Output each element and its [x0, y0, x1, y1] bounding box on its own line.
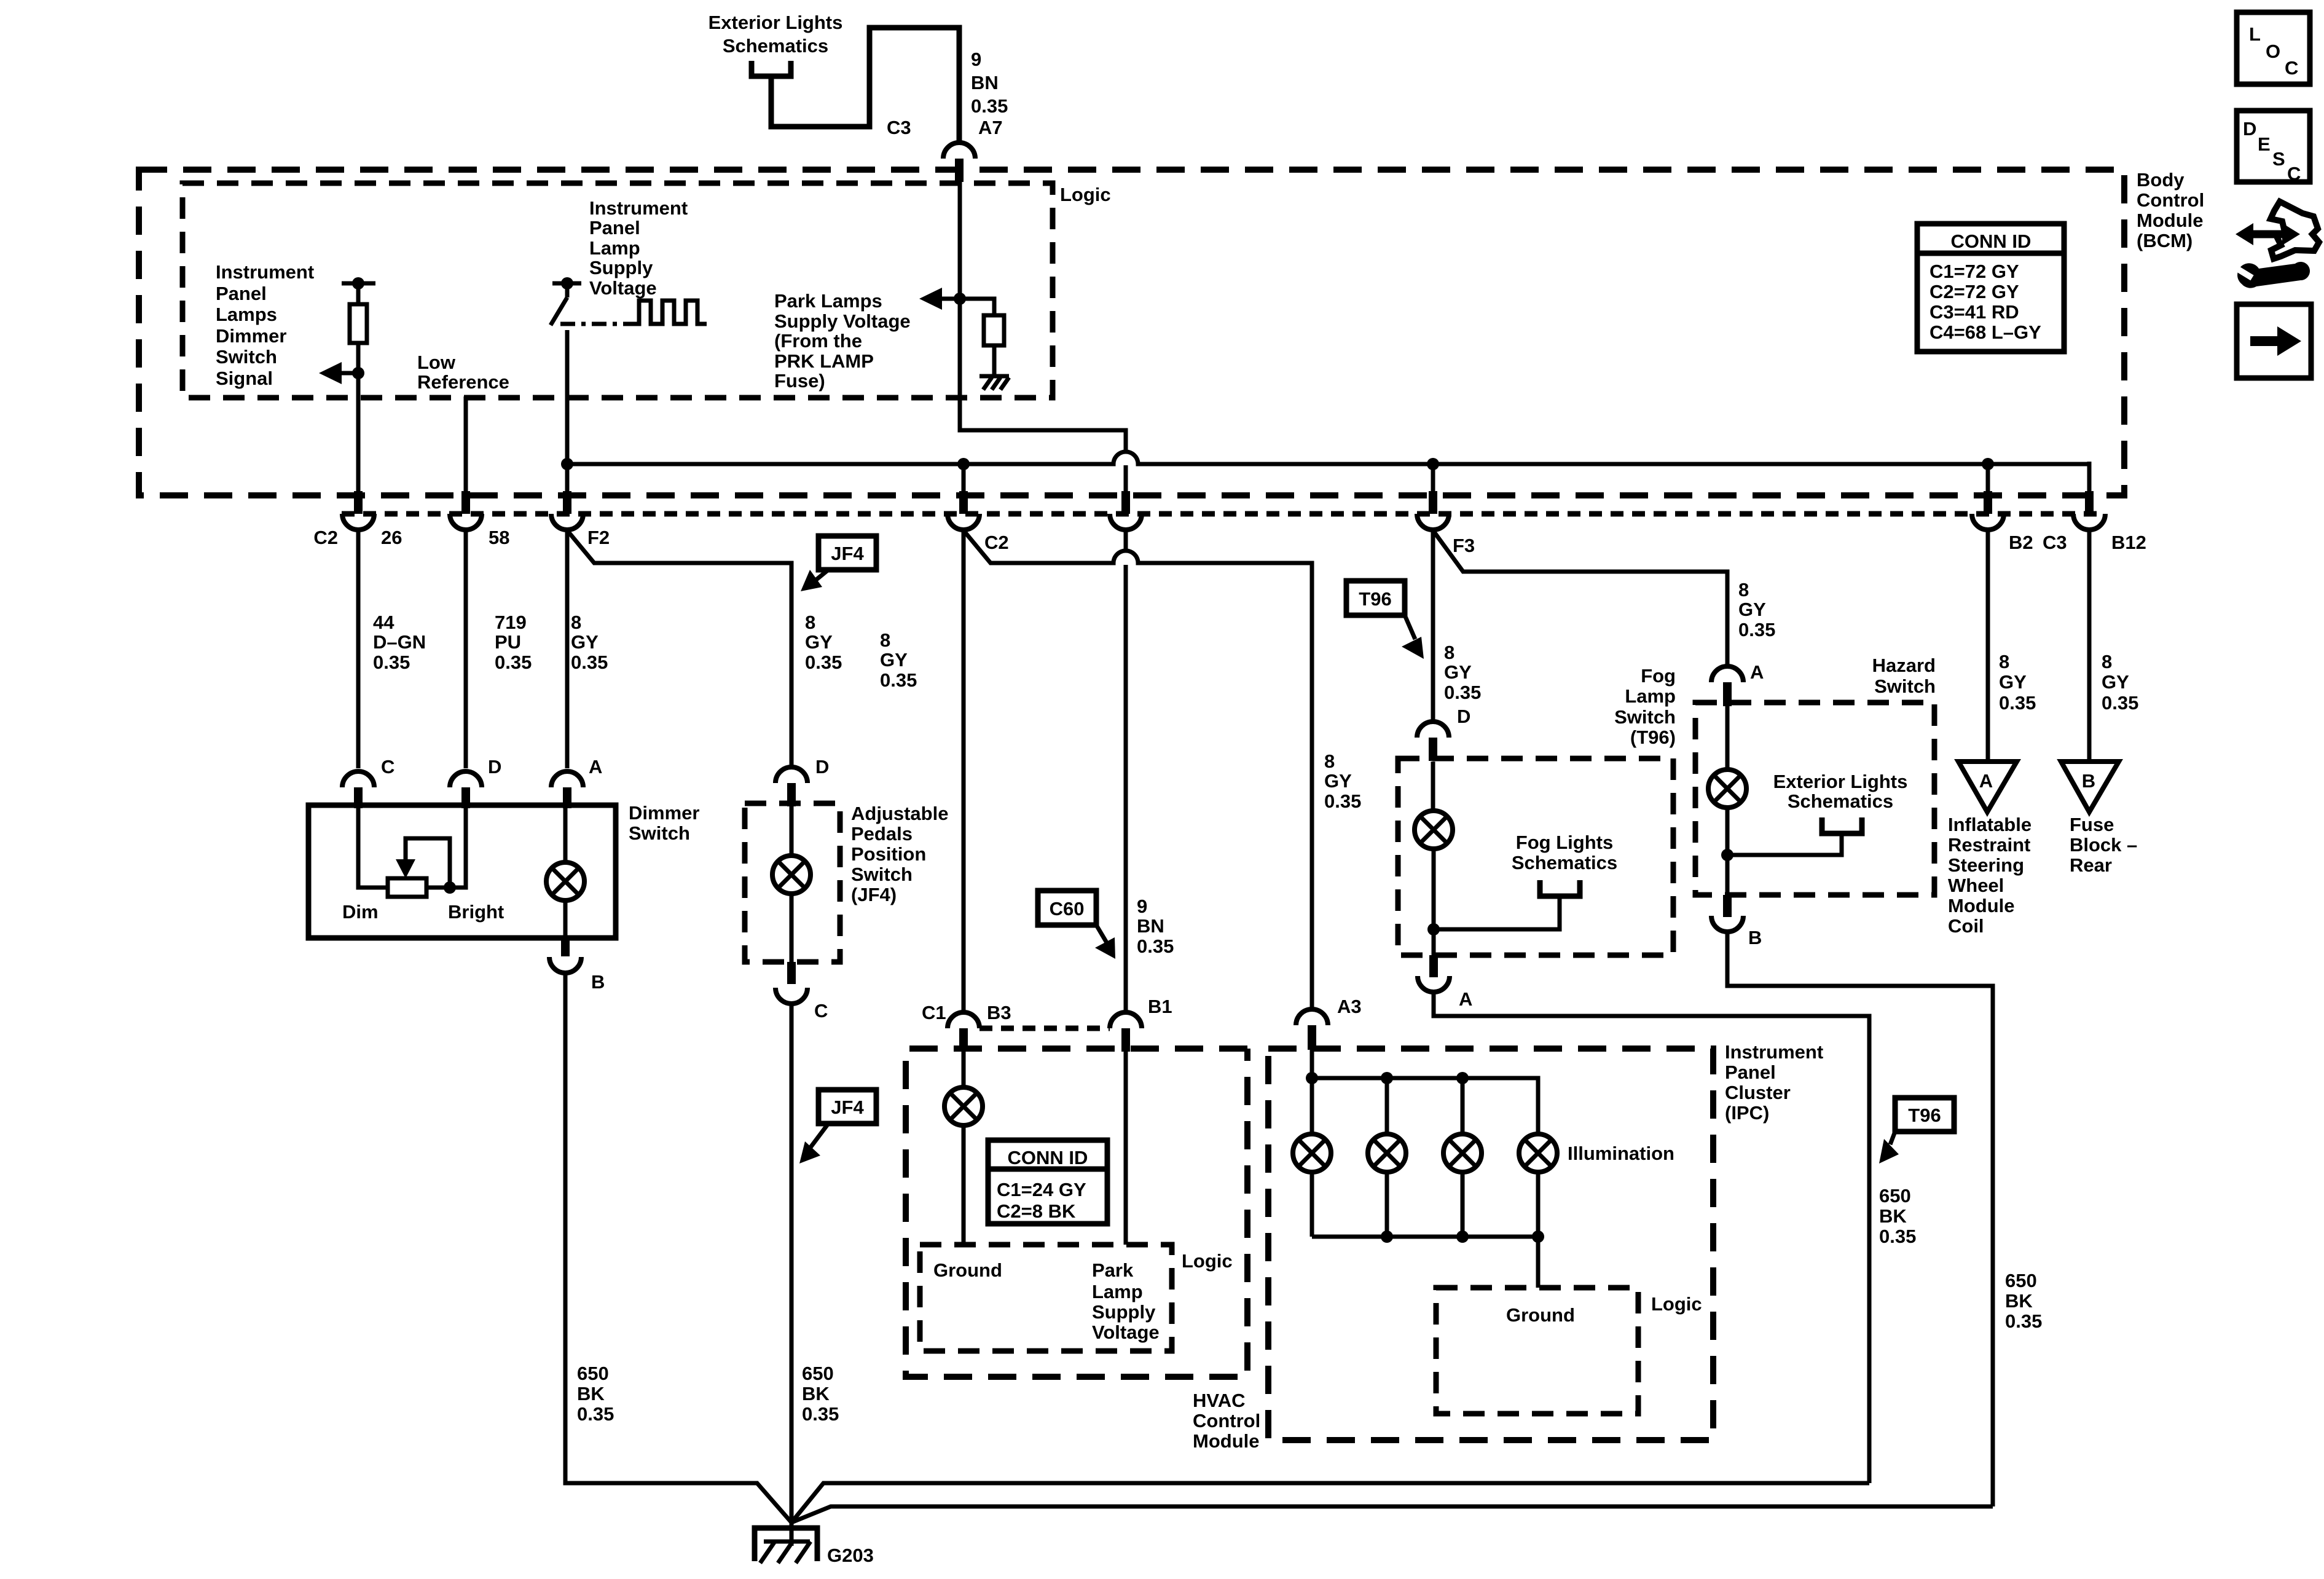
node IPC bottom bus junctions	[1381, 1231, 1544, 1243]
wire F2 drop to dimmer A	[565, 530, 570, 768]
svg-text:650: 650	[1879, 1185, 1911, 1207]
node bus-C2	[957, 458, 970, 470]
wire label 8 GY 0.35 (hazard A)	[1738, 579, 1775, 640]
svg-text:Schematics: Schematics	[1788, 790, 1893, 812]
component box Dimmer Switch	[308, 805, 616, 938]
wire label 8 GY 0.35 (A3 drop)	[1324, 750, 1361, 812]
label Dimmer Switch	[629, 802, 699, 844]
wire label 8 GY 0.35 (B2)	[1999, 651, 2036, 714]
pin C2 (center)	[948, 491, 979, 530]
svg-text:Module: Module	[2137, 210, 2204, 231]
wire pedals C to ground	[790, 1004, 794, 1522]
lamp (HVAC illumination)	[944, 1052, 983, 1245]
offpage triangle A (inflatable restraint)	[1958, 762, 2017, 812]
svg-text:T96: T96	[1908, 1105, 1941, 1126]
svg-text:C60: C60	[1050, 898, 1085, 919]
svg-text:0.35: 0.35	[373, 652, 410, 673]
component box Hazard Switch (dashed)	[1695, 703, 1934, 895]
wire B1 into HVAC logic	[1124, 1052, 1128, 1245]
wire label 650 BK 0.35 (fog)	[1879, 1185, 1916, 1247]
svg-text:T96: T96	[1359, 588, 1391, 610]
icon vehicle outline with arrow and wrench	[2236, 202, 2319, 288]
svg-text:Pedals: Pedals	[851, 823, 913, 845]
connector B (dimmer switch bottom)	[549, 935, 605, 993]
svg-text:Dimmer: Dimmer	[629, 802, 699, 824]
svg-text:BK: BK	[577, 1383, 605, 1404]
wire F2 branch diagonal to JF4	[567, 530, 791, 767]
svg-text:B3: B3	[987, 1002, 1011, 1023]
svg-text:719: 719	[495, 612, 527, 633]
svg-text:S: S	[2272, 148, 2285, 170]
wire F3 drop to fog lamp switch D	[1431, 530, 1435, 722]
svg-text:CONN ID: CONN ID	[1951, 230, 2032, 252]
svg-text:A3: A3	[1337, 996, 1362, 1017]
svg-text:Restraint: Restraint	[1948, 834, 2030, 856]
svg-text:Lamp: Lamp	[589, 237, 640, 259]
connector D (dimmer switch)	[450, 756, 501, 808]
connector bracket Fog Lights Schematics	[1434, 832, 1617, 929]
svg-text:Adjustable: Adjustable	[851, 803, 948, 824]
wire hazard B to right drop	[1727, 932, 1993, 1506]
svg-text:8: 8	[1738, 579, 1749, 600]
label Instrument Panel Lamps Dimmer Switch Signal	[216, 261, 314, 389]
wire A7 into logic box down to junction	[958, 182, 962, 299]
svg-text:26: 26	[381, 527, 402, 548]
svg-text:Lamp: Lamp	[1092, 1281, 1143, 1302]
svg-text:PRK LAMP: PRK LAMP	[774, 350, 874, 372]
svg-text:B: B	[591, 971, 605, 993]
connector A (fog lamp switch bottom)	[1418, 955, 1472, 1010]
pin F2	[551, 491, 583, 530]
connector D (adjustable pedals)	[775, 756, 829, 806]
lamp (adjustable pedals illumination)	[772, 806, 811, 962]
lamp (hazard switch)	[1708, 706, 1746, 895]
svg-text:Supply: Supply	[1092, 1301, 1156, 1323]
svg-text:GY: GY	[571, 631, 599, 653]
wire C2 branch vertical to HVAC C1	[962, 530, 966, 1012]
svg-text:Fog: Fog	[1641, 665, 1676, 687]
svg-text:Steering: Steering	[1948, 854, 2024, 876]
wire hazard drop bottom run to ground	[791, 1506, 1993, 1522]
wire F3 pin drop from bus	[1431, 464, 1435, 495]
svg-text:JF4: JF4	[831, 543, 864, 564]
svg-text:Ground: Ground	[933, 1259, 1002, 1281]
lamp IPC illumination 2	[1368, 1078, 1406, 1237]
wire IPC bottom bus	[1312, 1237, 1538, 1288]
icon box DESC	[2237, 111, 2310, 184]
svg-text:Block –: Block –	[2070, 834, 2137, 856]
svg-text:C: C	[2287, 163, 2301, 184]
pin 58	[450, 491, 482, 530]
wire label 8 GY 0.35 (JF4 branch)	[805, 612, 842, 673]
svg-text:C1: C1	[922, 1002, 946, 1023]
component box Fog Lamp Switch (dashed)	[1398, 758, 1673, 955]
wire label 650 BK 0.35 (pedals C)	[802, 1363, 839, 1425]
svg-text:C2: C2	[984, 532, 1009, 553]
svg-text:D: D	[1457, 706, 1470, 727]
table CONN ID (BCM)	[1917, 224, 2064, 352]
pin C2-26	[342, 491, 374, 530]
wire bus corner down to B12	[2087, 462, 2092, 495]
resistor (park lamp pull-down)	[960, 299, 1004, 376]
svg-text:B2: B2	[2009, 532, 2033, 553]
wire label 8 GY 0.35 (B12)	[2102, 651, 2138, 714]
svg-text:Reference: Reference	[417, 371, 509, 393]
node bus-B2	[1982, 458, 1994, 470]
svg-text:8: 8	[2102, 651, 2112, 672]
label Instrument Panel Cluster (IPC)	[1725, 1041, 1823, 1124]
svg-text:Exterior Lights: Exterior Lights	[1773, 771, 1908, 792]
wire fog A to right drop	[1434, 992, 1869, 1483]
wire label 9 BN 0.35 (top)	[971, 49, 1008, 117]
svg-text:A7: A7	[978, 117, 1003, 138]
control line dash-dot	[560, 322, 632, 326]
svg-text:Module: Module	[1948, 895, 2015, 916]
svg-text:C2: C2	[313, 527, 338, 548]
callout C60	[1038, 891, 1115, 959]
svg-text:A: A	[589, 756, 602, 778]
svg-text:0.35: 0.35	[1738, 619, 1775, 640]
offpage triangle B (fuse block rear)	[2061, 762, 2119, 812]
svg-text:Wheel: Wheel	[1948, 875, 2004, 896]
svg-text:BK: BK	[802, 1383, 830, 1404]
svg-text:C: C	[814, 1000, 828, 1022]
svg-text:O: O	[2266, 41, 2280, 62]
svg-text:Switch: Switch	[216, 346, 277, 368]
svg-text:Instrument: Instrument	[589, 197, 688, 219]
connector bracket Exterior Lights Schematics (top)	[709, 12, 959, 143]
connector line BCM bottom (fine dashed)	[342, 511, 2102, 517]
wire below resistor	[356, 343, 361, 495]
module box BCM outer dashed border	[139, 170, 2124, 495]
svg-text:E: E	[2258, 133, 2271, 155]
svg-text:Illumination: Illumination	[1568, 1143, 1674, 1164]
wire label 8 GY 0.35 (F3 drop)	[1444, 642, 1481, 703]
signal square wave symbol	[632, 301, 707, 324]
wire F2 inside BCM below switch	[565, 330, 570, 495]
ground (park lamp resistor)	[979, 376, 1009, 390]
svg-text:(From the: (From the	[774, 330, 862, 352]
svg-text:Voltage: Voltage	[1092, 1321, 1160, 1343]
callout T96 (upper)	[1346, 581, 1424, 659]
lamp IPC illumination 4	[1519, 1134, 1557, 1237]
svg-text:F3: F3	[1453, 535, 1475, 556]
module box Instrument Panel Cluster (dashed)	[1268, 1049, 1713, 1440]
svg-text:C1=24 GY: C1=24 GY	[997, 1179, 1086, 1200]
svg-text:8: 8	[571, 612, 581, 633]
svg-text:0.35: 0.35	[571, 652, 608, 673]
svg-text:Switch: Switch	[1614, 706, 1676, 728]
svg-text:0.35: 0.35	[1444, 682, 1481, 703]
wire label 8 GY 0.35 (F2)	[571, 612, 608, 673]
label Fog Lamp Switch (T96)	[1614, 665, 1676, 748]
svg-text:650: 650	[2005, 1270, 2037, 1291]
wire B2 drop to triangle A	[1986, 530, 1990, 762]
wire low reference	[464, 396, 468, 495]
wire B1 vertical crossing bus	[1124, 465, 1128, 495]
node fog junction	[1427, 923, 1440, 935]
svg-text:Switch: Switch	[629, 822, 690, 844]
pin B2	[1972, 491, 2004, 530]
connector C1 B3 (HVAC)	[922, 1002, 1011, 1052]
pin B12	[2073, 491, 2105, 530]
svg-text:0.35: 0.35	[802, 1403, 839, 1425]
callout JF4 (upper)	[801, 536, 876, 591]
svg-text:Instrument: Instrument	[1725, 1041, 1823, 1063]
svg-text:Control: Control	[2137, 189, 2204, 211]
svg-text:L: L	[2249, 23, 2261, 45]
logic box BCM inner dashed	[183, 183, 1053, 398]
label HVAC Control Module	[1193, 1390, 1260, 1452]
svg-text:0.35: 0.35	[2005, 1310, 2042, 1332]
svg-text:Logic: Logic	[1651, 1293, 1702, 1315]
svg-text:Cluster: Cluster	[1725, 1082, 1791, 1103]
svg-text:GY: GY	[1444, 661, 1472, 683]
svg-text:9: 9	[971, 49, 981, 70]
svg-text:Exterior Lights: Exterior Lights	[709, 12, 843, 33]
connector A (dimmer switch)	[551, 756, 602, 808]
svg-text:Fog Lights: Fog Lights	[1516, 832, 1613, 853]
svg-text:D–GN: D–GN	[373, 631, 426, 653]
node hazard junction	[1721, 849, 1733, 861]
svg-text:(BCM): (BCM)	[2137, 230, 2192, 251]
svg-text:Hazard: Hazard	[1872, 655, 1936, 676]
signal arrow (park lamps supply voltage, pointing left)	[919, 288, 966, 310]
svg-text:Signal: Signal	[216, 368, 273, 389]
svg-text:650: 650	[577, 1363, 609, 1384]
svg-text:0.35: 0.35	[1324, 790, 1361, 812]
svg-text:B1: B1	[1148, 996, 1172, 1017]
wire B2 pin drop from bus	[1986, 464, 1990, 495]
wire label 9 BN 0.35 (B1)	[1137, 896, 1174, 957]
svg-text:8: 8	[1999, 651, 2009, 672]
node bus-F2	[561, 458, 573, 470]
svg-text:Rear: Rear	[2070, 854, 2112, 876]
svg-text:650: 650	[802, 1363, 834, 1384]
svg-text:Fuse): Fuse)	[774, 370, 825, 392]
label Hazard Switch	[1872, 655, 1936, 697]
svg-text:B: B	[2082, 770, 2095, 792]
wire C2 branch diagonal/horizontal to A3 with hop over B1 wire	[964, 530, 1312, 1009]
pin labels bottom row	[313, 527, 2146, 556]
svg-text:GY: GY	[2102, 671, 2129, 693]
connector bracket Exterior Lights Schematics (hazard)	[1727, 771, 1907, 855]
svg-text:BN: BN	[971, 72, 999, 93]
lamp (dimmer switch illumination)	[546, 808, 584, 935]
connector B1 (HVAC)	[1110, 996, 1172, 1052]
svg-text:C: C	[2285, 57, 2298, 79]
svg-text:B12: B12	[2111, 532, 2146, 553]
label Instrument Panel Lamp Supply Voltage	[589, 197, 688, 299]
wire C2 pin drop from bus	[962, 464, 966, 495]
svg-text:Park: Park	[1092, 1259, 1134, 1281]
lamp IPC illumination 1	[1293, 1078, 1331, 1237]
svg-text:GY: GY	[880, 649, 908, 671]
svg-text:Switch: Switch	[1874, 675, 1936, 697]
wire label 8 GY 0.35 (C2 drop)	[880, 629, 917, 691]
svg-text:0.35: 0.35	[880, 669, 917, 691]
wire B1 drop to HVAC B1	[1124, 530, 1128, 1012]
svg-text:Position: Position	[851, 843, 926, 865]
svg-text:Lamps: Lamps	[216, 304, 277, 325]
svg-text:A: A	[1979, 770, 1993, 792]
svg-text:C3=41 RD: C3=41 RD	[1929, 301, 2019, 323]
svg-text:GY: GY	[805, 631, 833, 653]
svg-text:Module: Module	[1193, 1430, 1260, 1452]
svg-text:C: C	[381, 756, 395, 778]
svg-text:C3: C3	[2043, 532, 2067, 553]
svg-text:8: 8	[880, 629, 890, 651]
pin B1 (unlabeled)	[1110, 491, 1142, 530]
svg-text:Logic: Logic	[1182, 1250, 1233, 1272]
logic box IPC inner (dashed)	[1436, 1288, 1638, 1414]
wire label 719 PU 0.35	[495, 612, 532, 673]
svg-text:Body: Body	[2137, 169, 2185, 191]
connector A (hazard switch)	[1711, 661, 1764, 706]
svg-text:GY: GY	[1738, 599, 1766, 620]
svg-text:A: A	[1750, 661, 1764, 683]
svg-text:0.35: 0.35	[1999, 692, 2036, 714]
svg-text:BK: BK	[1879, 1205, 1907, 1227]
svg-text:B: B	[1748, 927, 1762, 948]
svg-text:Schematics: Schematics	[1512, 852, 1617, 873]
wire F3 branch diagonal to hazard A	[1433, 530, 1727, 666]
svg-text:G203: G203	[827, 1545, 874, 1566]
node bus-F3	[1427, 458, 1439, 470]
label Fuse Block - Rear	[2070, 814, 2137, 876]
svg-text:C1=72 GY: C1=72 GY	[1929, 261, 2019, 282]
svg-text:58: 58	[489, 527, 509, 548]
svg-text:Panel: Panel	[216, 283, 267, 304]
wire fog drop bottom run to ground	[791, 1483, 1869, 1522]
svg-text:0.35: 0.35	[2102, 692, 2138, 714]
svg-text:0.35: 0.35	[577, 1403, 614, 1425]
svg-text:8: 8	[805, 612, 815, 633]
svg-text:Bright: Bright	[448, 901, 504, 923]
icon box LOC	[2237, 12, 2310, 84]
wire 719 PU drop to dimmer D	[464, 530, 468, 768]
connector C (dimmer switch)	[342, 756, 395, 808]
svg-text:Instrument: Instrument	[216, 261, 314, 283]
svg-text:0.35: 0.35	[971, 95, 1008, 117]
logic box HVAC inner (dashed)	[920, 1245, 1172, 1351]
svg-text:C2=8 BK: C2=8 BK	[997, 1200, 1076, 1222]
svg-text:(T96): (T96)	[1630, 726, 1676, 748]
svg-text:(IPC): (IPC)	[1725, 1102, 1769, 1124]
connector line HVAC (fine dashed)	[979, 1026, 1110, 1031]
connector B (hazard switch bottom)	[1711, 895, 1762, 948]
connector C (adjustable pedals bottom)	[775, 962, 828, 1022]
svg-text:GY: GY	[1324, 770, 1352, 792]
wire 44 D-GN drop to dimmer C	[356, 530, 361, 768]
ground G203	[755, 1522, 874, 1566]
label Park Lamps Supply Voltage (From the PRK LAMP Fuse)	[774, 290, 911, 392]
svg-text:Supply Voltage: Supply Voltage	[774, 310, 911, 332]
svg-text:A: A	[1459, 988, 1472, 1010]
potentiometer (dimmer switch)	[358, 808, 466, 897]
svg-text:Park Lamps: Park Lamps	[774, 290, 882, 312]
svg-text:Control: Control	[1193, 1410, 1260, 1431]
signal arrow (dimmer switch signal, pointing left)	[319, 362, 364, 384]
svg-text:Fuse: Fuse	[2070, 814, 2114, 835]
wire label 650 BK 0.35 (dimmer B)	[577, 1363, 614, 1425]
svg-text:Dim: Dim	[342, 901, 379, 923]
svg-text:BK: BK	[2005, 1290, 2033, 1312]
resistor (dimmer switch signal) with top bar	[342, 277, 375, 343]
label Park Lamp Supply Voltage (HVAC)	[1092, 1259, 1160, 1343]
table CONN ID (HVAC)	[988, 1140, 1107, 1224]
svg-text:D: D	[2243, 118, 2256, 140]
wire label 650 BK 0.35 (hazard)	[2005, 1270, 2042, 1332]
callout T96 (lower right)	[1879, 1098, 1954, 1164]
svg-text:Schematics: Schematics	[723, 35, 828, 57]
node IPC top bus junctions	[1306, 1072, 1469, 1084]
svg-text:C3: C3	[887, 117, 911, 138]
connector C3 pin A7	[887, 117, 1003, 182]
module label Body Control Module (BCM)	[2137, 169, 2204, 251]
svg-text:Ground: Ground	[1506, 1304, 1575, 1326]
wire A3 into IPC	[1310, 1050, 1314, 1078]
svg-text:Low: Low	[417, 352, 456, 373]
svg-text:Voltage: Voltage	[589, 277, 657, 299]
svg-text:0.35: 0.35	[1137, 935, 1174, 957]
svg-text:JF4: JF4	[831, 1097, 864, 1118]
label Dim / Bright	[342, 901, 504, 923]
label Inflatable Restraint Steering Wheel Module Coil	[1948, 814, 2032, 937]
wire label 44 D-GN 0.35	[373, 612, 426, 673]
svg-text:8: 8	[1324, 750, 1335, 772]
svg-text:Panel: Panel	[1725, 1061, 1776, 1083]
switch (instrument panel lamp supply voltage)	[551, 277, 581, 325]
svg-text:Lamp: Lamp	[1625, 685, 1676, 707]
connector D (fog lamp switch)	[1417, 706, 1470, 761]
label Low Reference	[417, 352, 509, 393]
lamp (fog lamp switch)	[1415, 762, 1453, 955]
wire B12 drop to triangle B	[2087, 530, 2092, 762]
wire IPC top bus	[1312, 1078, 1538, 1134]
svg-text:GY: GY	[1999, 671, 2027, 693]
connector A3 (IPC)	[1296, 996, 1362, 1050]
svg-text:Dimmer: Dimmer	[216, 325, 286, 347]
bus wire inside BCM with hop over B1 wire	[567, 452, 2089, 464]
wire park lamp supply to B1 drop	[960, 299, 1126, 452]
svg-text:0.35: 0.35	[805, 652, 842, 673]
svg-text:Coil: Coil	[1948, 915, 1984, 937]
svg-text:(JF4): (JF4)	[851, 884, 897, 905]
svg-text:C2=72 GY: C2=72 GY	[1929, 281, 2019, 302]
svg-text:Switch: Switch	[851, 864, 913, 885]
svg-text:C4=68 L–GY: C4=68 L–GY	[1929, 321, 2041, 343]
svg-text:F2: F2	[587, 527, 610, 548]
callout JF4 (lower)	[799, 1090, 876, 1164]
svg-text:Panel: Panel	[589, 217, 640, 238]
svg-text:PU: PU	[495, 631, 521, 653]
wire dimmer B to ground run	[565, 973, 791, 1522]
svg-text:D: D	[815, 756, 829, 778]
icon box right-arrow	[2237, 304, 2311, 378]
svg-text:CONN ID: CONN ID	[1008, 1147, 1088, 1168]
svg-text:8: 8	[1444, 642, 1454, 663]
component box Adjustable Pedals Position Switch (dashed)	[745, 803, 840, 962]
lamp IPC illumination 3	[1443, 1078, 1482, 1237]
pin F3	[1417, 491, 1449, 530]
label Adjustable Pedals Position Switch (JF4)	[851, 803, 948, 905]
svg-text:9: 9	[1137, 896, 1147, 917]
svg-text:Supply: Supply	[589, 257, 653, 278]
svg-text:D: D	[488, 756, 501, 778]
svg-text:BN: BN	[1137, 915, 1164, 937]
svg-text:Inflatable: Inflatable	[1948, 814, 2032, 835]
